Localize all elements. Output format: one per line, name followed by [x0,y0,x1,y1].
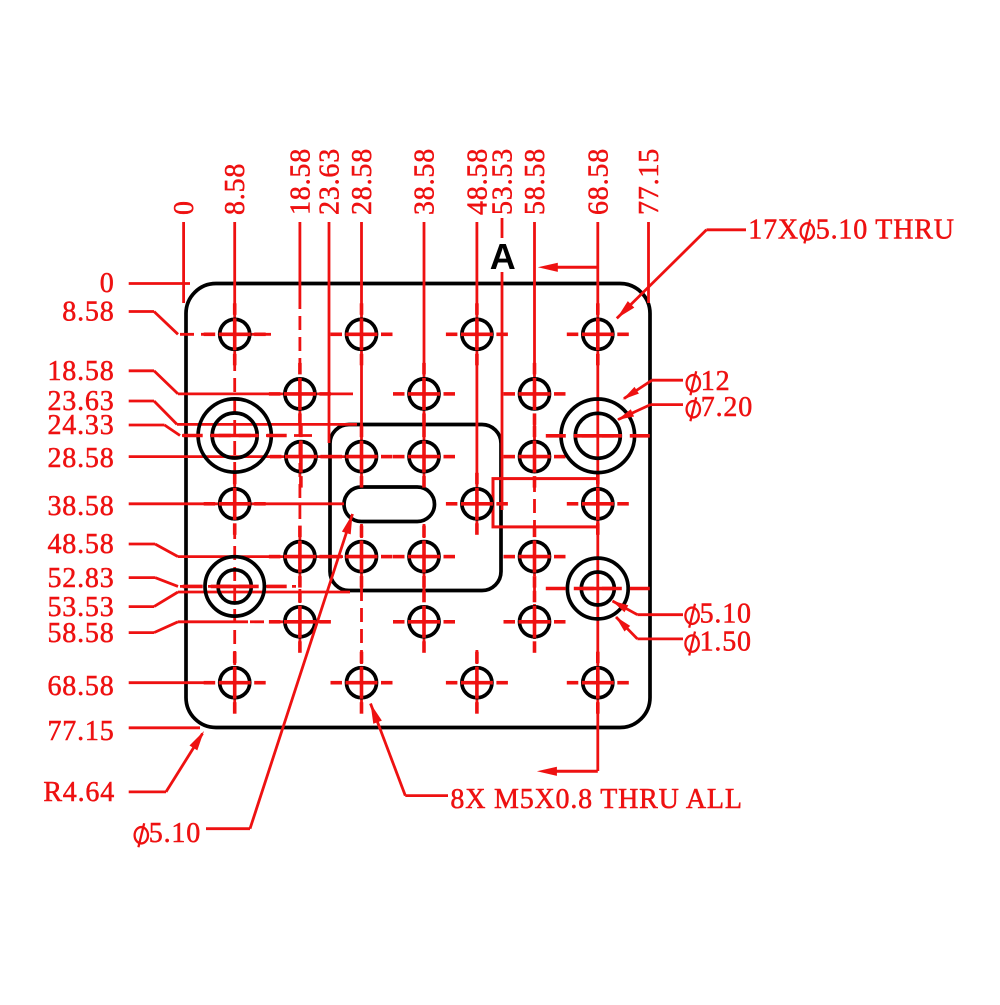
hole r5c2 [331,526,393,588]
plate outline [186,284,650,728]
leader row 58.58 [129,631,154,634]
hole r6c1 [269,591,331,653]
leader row 53.53 [129,605,154,608]
svg-text:5.10: 5.10 [149,818,201,849]
dim line col 8.58 [233,222,236,357]
svg-text:18.58: 18.58 [285,148,316,215]
svg-text:17X: 17X [748,214,799,245]
large hole bottom-right [546,558,650,619]
dim line col 28.58 [360,222,363,478]
dim line col 68.58 [596,222,599,771]
section arrow A top [549,266,598,269]
hole r5c4 [504,526,566,588]
svg-text:8X M5X0.8 THRU ALL: 8X M5X0.8 THRU ALL [450,784,742,815]
svg-text:7.20: 7.20 [701,392,753,423]
hole r7c1 [204,652,266,714]
leader row 24.33 [129,424,165,427]
svg-text:68.58: 68.58 [583,148,614,215]
svg-text:0: 0 [169,200,200,215]
hole r1c2 [331,303,393,365]
hole r4c2 [446,473,508,535]
hole r1c4 [567,303,629,365]
dim line row 0 [129,282,190,285]
hole r4c3 [567,473,629,535]
leader row 48.58 [129,543,155,546]
dim line col 58.58 [533,222,536,352]
hole r1c3 [446,303,508,365]
dim line col 0 [182,222,185,303]
svg-text:53.53: 53.53 [488,148,519,215]
svg-text:A: A [490,236,516,277]
dim line col 77.15 [647,222,650,303]
svg-text:52.83: 52.83 [48,563,115,594]
svg-text:8.58: 8.58 [62,297,114,328]
svg-text:5.10 THRU: 5.10 THRU [816,214,955,245]
hole r3c2 [331,426,393,488]
svg-text:58.58: 58.58 [520,148,551,215]
hole r6c3 [504,591,566,653]
label phi12 [687,371,700,395]
inner recess square [330,425,501,591]
label phi5.10 bottom [135,823,148,847]
dim line col 48.58 [475,222,478,532]
detail box [493,479,598,527]
large hole bottom-left [183,557,287,616]
slot [344,487,435,522]
leader row 8.58 [129,310,154,313]
label phi7.20 [687,397,700,421]
hole r2c2 [393,363,455,425]
svg-text:77.15: 77.15 [48,716,115,747]
svg-text:38.58: 38.58 [410,148,441,215]
hole r3c4 [504,426,566,488]
hole r5c1 [269,526,331,588]
hole r4c1 [204,473,266,535]
svg-text:23.63: 23.63 [315,148,346,215]
svg-text:R4.64: R4.64 [43,777,115,808]
large hole top-left [183,399,287,472]
leader row 23.63 [129,400,154,403]
hole r7c4 [567,652,629,714]
svg-text:8.58: 8.58 [220,163,251,215]
svg-text:77.15: 77.15 [634,148,665,215]
label phi1.50 [685,632,698,656]
hole r2c1 [269,363,331,425]
leader row 18.58 [129,369,154,372]
svg-text:0: 0 [100,268,115,299]
dim line col 38.58 [423,222,426,478]
hole r6c2 [393,591,455,653]
large hole top-right [546,399,650,473]
hole r5c3 [393,526,455,588]
svg-text:58.58: 58.58 [48,618,115,649]
label phi5.10 right [685,604,698,628]
section arrow bottom [548,770,598,773]
dim line row 38.58 [129,502,344,505]
svg-text:28.58: 28.58 [48,443,115,474]
dim line row 68.58 [129,681,213,684]
svg-text:68.58: 68.58 [48,671,115,702]
hole r2c3 [504,363,566,425]
svg-text:28.58: 28.58 [347,148,378,215]
svg-text:24.33: 24.33 [48,410,115,441]
hole r7c3 [446,652,508,714]
dim line col 18.58 [298,222,301,295]
svg-text:48.58: 48.58 [48,529,115,560]
leader row 52.83 [129,576,155,579]
svg-text:5.10: 5.10 [700,599,752,630]
dim line row 28.58 [129,455,345,458]
dim line col 53.53 [501,218,504,238]
hole r7c2 [331,652,393,714]
hole r3c1 [270,426,332,488]
svg-text:38.58: 38.58 [48,491,115,522]
dim line row 77.15 [129,726,200,729]
svg-text:18.58: 18.58 [48,356,115,387]
hole r3c3 [393,426,455,488]
dim line col 23.63 [328,222,331,443]
svg-text:1.50: 1.50 [700,627,752,658]
hole r1c1 [204,303,266,365]
